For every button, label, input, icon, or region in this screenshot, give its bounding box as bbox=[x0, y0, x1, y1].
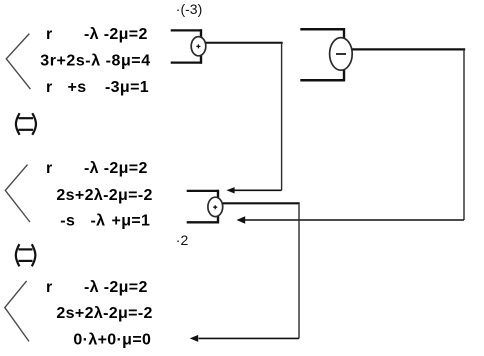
svg-text:3r+2s-λ -8μ=4: 3r+2s-λ -8μ=4 bbox=[40, 52, 150, 69]
brace system 2 bbox=[5, 165, 30, 222]
arrow into U3 top input bbox=[226, 187, 281, 193]
svg-text:r: r bbox=[46, 26, 53, 43]
scaler U3 ellipse with dot bbox=[208, 197, 223, 216]
combiner U1 output wire bbox=[206, 42, 283, 44]
combiner U1 bottom input wire bbox=[171, 61, 202, 63]
svg-text:r: r bbox=[46, 79, 53, 96]
equation S2 line1: r -λ -2μ=2 bbox=[46, 160, 148, 177]
svg-text:-s: -s bbox=[60, 213, 75, 230]
subtractor U2 top input wire bbox=[300, 28, 345, 31]
svg-text:-λ -2μ=2: -λ -2μ=2 bbox=[84, 26, 148, 43]
scaler U3 bottom input wire bbox=[187, 221, 219, 223]
svg-text:+μ=1: +μ=1 bbox=[112, 213, 151, 230]
svg-text:2s+2λ-2μ=-2: 2s+2λ-2μ=-2 bbox=[56, 187, 152, 204]
brace system 3 bbox=[5, 281, 29, 342]
svg-text:·2: ·2 bbox=[176, 232, 189, 248]
equation S2 line3: -s -λ +μ=1 bbox=[60, 213, 150, 230]
scaler U3 output wire bbox=[223, 202, 300, 204]
arrow into U3 bottom input bbox=[237, 216, 465, 223]
svg-text:0·λ+0·μ=0: 0·λ+0·μ=0 bbox=[73, 331, 151, 348]
svg-text:r: r bbox=[46, 279, 53, 296]
brace system 1 bbox=[6, 34, 30, 90]
svg-text:+s: +s bbox=[68, 79, 87, 96]
combiner U1 top input wire bbox=[171, 29, 202, 31]
svg-text:·(-3): ·(-3) bbox=[176, 1, 202, 17]
svg-text:-3μ=1: -3μ=1 bbox=[105, 79, 149, 96]
wire down from U1 output bbox=[281, 43, 283, 191]
svg-text:-λ -2μ=2: -λ -2μ=2 bbox=[84, 160, 148, 177]
double arrow equivalence 2 bbox=[16, 244, 36, 266]
equation S1 line3: r +s -3μ=1 bbox=[46, 79, 149, 96]
subtractor U2 bottom input wire bbox=[300, 79, 345, 82]
combiner U1 ellipse with dot bbox=[191, 37, 206, 56]
subtractor U2 vertical bar bbox=[343, 28, 345, 81]
scaler U3 vertical bar bbox=[217, 190, 219, 224]
wire down from U3 output bbox=[298, 204, 300, 338]
double arrow equivalence 1 bbox=[16, 113, 36, 135]
arrow into S3 last equation bbox=[190, 335, 299, 342]
scaler U3 top input wire bbox=[187, 190, 219, 192]
equation S1 line1: r -λ -2μ=2 bbox=[46, 26, 148, 43]
svg-text:-λ: -λ bbox=[91, 213, 106, 230]
wire down right side bbox=[463, 49, 465, 220]
subtractor U2 output wire bbox=[352, 48, 465, 50]
svg-text:2s+2λ-2μ=-2: 2s+2λ-2μ=-2 bbox=[56, 305, 152, 322]
svg-text:r: r bbox=[46, 160, 53, 177]
svg-text:-λ -2μ=2: -λ -2μ=2 bbox=[84, 279, 148, 296]
combiner U1 vertical bar bbox=[200, 29, 202, 63]
subtractor U2 ellipse with minus bbox=[330, 38, 353, 71]
equation S3 line1: r -λ -2μ=2 bbox=[46, 279, 148, 296]
